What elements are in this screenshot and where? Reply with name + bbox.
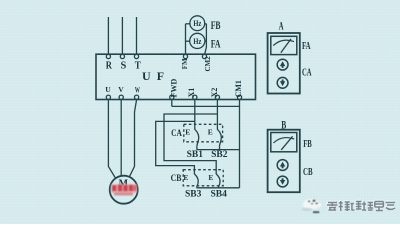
- wire phase T: [136, 17, 138, 54]
- red watermark in motor: [111, 184, 137, 195]
- terminal FWD: [170, 95, 174, 99]
- switch SB4 blade: [216, 174, 220, 188]
- svg-text:FM: FM: [181, 58, 189, 69]
- terminal T: [134, 54, 138, 58]
- wire SB3 SB4 common to CM1: [197, 187, 240, 189]
- svg-text:FA: FA: [302, 41, 311, 52]
- svg-text:S: S: [121, 60, 127, 71]
- stub right bottom: [204, 40, 206, 42]
- svg-text:CA: CA: [302, 67, 312, 78]
- arrow down A: [280, 80, 285, 87]
- switch SB2 blade: [217, 129, 221, 146]
- inverter UF box: [96, 54, 256, 99]
- svg-text:FB: FB: [303, 139, 312, 150]
- panel B box: [268, 130, 300, 193]
- panel B meter needle: [281, 136, 292, 150]
- svg-text:CB: CB: [303, 167, 313, 178]
- terminal X1: [193, 95, 197, 99]
- meter FA circle: [190, 33, 205, 48]
- svg-text:FB: FB: [211, 20, 221, 32]
- svg-text:SB4: SB4: [211, 189, 228, 199]
- motor wire U: [108, 100, 115, 179]
- motor wire W: [129, 100, 137, 179]
- svg-text:E: E: [208, 173, 213, 182]
- stub left bottom: [186, 40, 191, 42]
- terminal S: [120, 54, 124, 58]
- svg-text:E: E: [208, 128, 213, 137]
- svg-text:FWD: FWD: [169, 79, 178, 98]
- terminal W: [135, 95, 139, 99]
- arrow down B: [280, 178, 285, 185]
- svg-text:SB3: SB3: [185, 189, 202, 199]
- svg-text:CB: CB: [171, 174, 182, 184]
- terminal CM1: [237, 95, 241, 99]
- svg-text:CA: CA: [171, 129, 182, 139]
- dashed group box CB: [183, 170, 223, 186]
- motor circle: [110, 176, 138, 204]
- svg-text:Hz: Hz: [193, 18, 201, 28]
- panel A box: [268, 33, 300, 94]
- watermark logo: [302, 199, 322, 213]
- panel A knob up: [277, 59, 288, 70]
- stub right top: [204, 23, 206, 25]
- terminal FM: [183, 54, 187, 58]
- svg-text:A: A: [279, 20, 284, 32]
- panel A meter face: [273, 40, 294, 45]
- SB1 bottom wire: [196, 146, 198, 150]
- svg-text:B: B: [281, 119, 286, 131]
- panel A knob down: [277, 77, 288, 88]
- meter wiring right vertical: [205, 24, 207, 54]
- wire SB1 SB2 common to CM1: [197, 149, 240, 151]
- panel B knob up: [277, 160, 288, 171]
- panel A meter needle: [281, 39, 291, 53]
- svg-text:CM2: CM2: [204, 56, 212, 72]
- svg-text:E: E: [185, 128, 190, 137]
- svg-text:U F: U F: [142, 69, 166, 83]
- motor wire V: [120, 100, 122, 176]
- svg-text:X1: X1: [187, 88, 196, 98]
- wire X2 to left branch B: [164, 114, 217, 174]
- svg-text:SB2: SB2: [211, 150, 228, 160]
- wire phase S: [121, 17, 123, 54]
- panel B meter face: [273, 138, 294, 143]
- svg-text:E: E: [183, 173, 188, 182]
- svg-text:R: R: [106, 60, 113, 71]
- dashed group box CA: [184, 124, 223, 142]
- panel A meter window: [271, 36, 297, 54]
- svg-text:SB1: SB1: [187, 150, 204, 160]
- svg-text:FA: FA: [211, 38, 221, 50]
- panel B meter window: [271, 133, 297, 152]
- X2 vertical wire: [216, 100, 218, 130]
- wire phase R: [107, 17, 109, 54]
- svg-text:X2: X2: [210, 88, 219, 98]
- arrow up B: [280, 162, 285, 169]
- svg-text:CM1: CM1: [234, 80, 243, 97]
- svg-text:V: V: [118, 85, 124, 94]
- terminal X2: [215, 95, 219, 99]
- wire FWD to CM1: [172, 105, 240, 107]
- meter FB circle: [190, 16, 205, 31]
- stub left top: [186, 23, 191, 25]
- X1 vertical wire: [194, 100, 196, 130]
- terminal CM2: [202, 54, 206, 58]
- watermark text: [326, 200, 395, 211]
- svg-text:T: T: [135, 60, 141, 71]
- wire X1 to left branch A: [156, 121, 195, 174]
- svg-text:W: W: [135, 86, 140, 95]
- terminal R: [106, 54, 110, 58]
- CM1 vertical wire: [239, 100, 241, 188]
- panel B knob down: [277, 176, 288, 187]
- switch SB3 blade: [194, 174, 198, 188]
- knob arrows: [280, 61, 285, 185]
- FWD drop wire: [171, 100, 173, 107]
- terminal V: [119, 95, 123, 99]
- svg-text:Hz: Hz: [193, 36, 201, 46]
- svg-text:U: U: [105, 85, 111, 94]
- terminal U: [106, 95, 110, 99]
- switch SB1 blade: [195, 129, 199, 146]
- SB2 bottom wire: [219, 146, 221, 150]
- frequency meter FB wiring left vertical: [185, 24, 187, 54]
- arrow up A: [280, 61, 285, 68]
